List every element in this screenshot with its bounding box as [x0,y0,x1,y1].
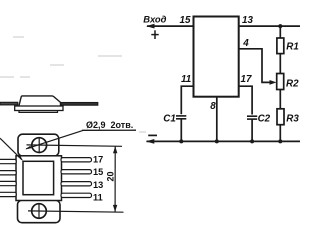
top mounting hole [32,137,47,152]
right pin 17 [61,158,92,162]
bottom mounting hole [32,204,47,219]
svg-text:17: 17 [93,155,103,165]
svg-text:Ø2,9 2отв.: Ø2,9 2отв. [86,120,133,130]
hole label underline [82,129,136,131]
wiper arrow on R2 [270,80,277,85]
wire R2-R3 [279,90,281,109]
side view right lead [61,103,98,106]
wire pin13 / top rail [239,25,300,27]
wire R3 to rail [279,125,281,142]
left pin 4 [0,192,16,196]
IC box DA1 [194,17,239,97]
svg-text:15: 15 [93,167,103,177]
scan noise dashes [0,37,146,132]
resistor R2 [277,74,284,90]
svg-text:20: 20 [106,171,116,181]
svg-text:8: 8 [210,101,216,112]
svg-text:15: 15 [180,15,191,26]
package middle section [16,156,62,201]
junction node C1 [179,139,183,143]
side view plastic body [19,96,61,106]
resistor R3 [277,109,284,125]
side view bottom step [19,111,58,113]
svg-text:11: 11 [93,193,103,203]
leader line to body corner [0,138,23,160]
side view flange [15,106,63,111]
wire pin11 down to C1 [181,86,193,141]
wire pin15 with input arrow [146,24,194,29]
svg-text:4: 4 [242,38,249,49]
svg-text:C1: C1 [163,113,176,124]
junction node pin8 [215,139,219,143]
minus sign [148,134,157,136]
resistor R1 [277,38,284,54]
svg-text:R2: R2 [286,79,299,90]
svg-text:13: 13 [242,15,253,26]
package top tab [18,134,59,156]
bottom rail with arrow [146,139,300,144]
junction node C2 [250,139,254,143]
right pin 11 [61,193,92,197]
wire R1-R2 [279,26,281,38]
right pin 15 [61,170,92,174]
svg-text:R3: R3 [286,114,299,125]
wire pin4 to wiper [239,49,273,83]
svg-text:Вход: Вход [143,14,166,25]
plus sign [151,30,158,39]
left pin 1 [0,159,16,163]
dimension line 20 [113,146,118,212]
dimension extension line bottom [28,211,124,212]
side view left lead [0,102,18,105]
svg-text:13: 13 [93,180,103,190]
right pin 13 [61,182,92,186]
capacitor C1 [176,114,186,119]
dimension extension line top [27,145,123,146]
wire pin17 down to C2 [239,86,252,141]
svg-text:R1: R1 [286,42,299,53]
capacitor C2 [247,115,257,120]
inner square (plastic body) [23,161,54,194]
svg-text:C2: C2 [258,113,271,124]
svg-text:17: 17 [241,74,252,85]
left pin 3 [0,181,16,185]
junction node top [278,24,282,28]
left pin 2 [0,171,16,175]
junction node R3 [278,139,282,143]
hole diameter leader [25,130,83,149]
package bottom tab [18,200,61,223]
wire pin8 down [216,97,218,142]
svg-text:11: 11 [181,74,191,85]
